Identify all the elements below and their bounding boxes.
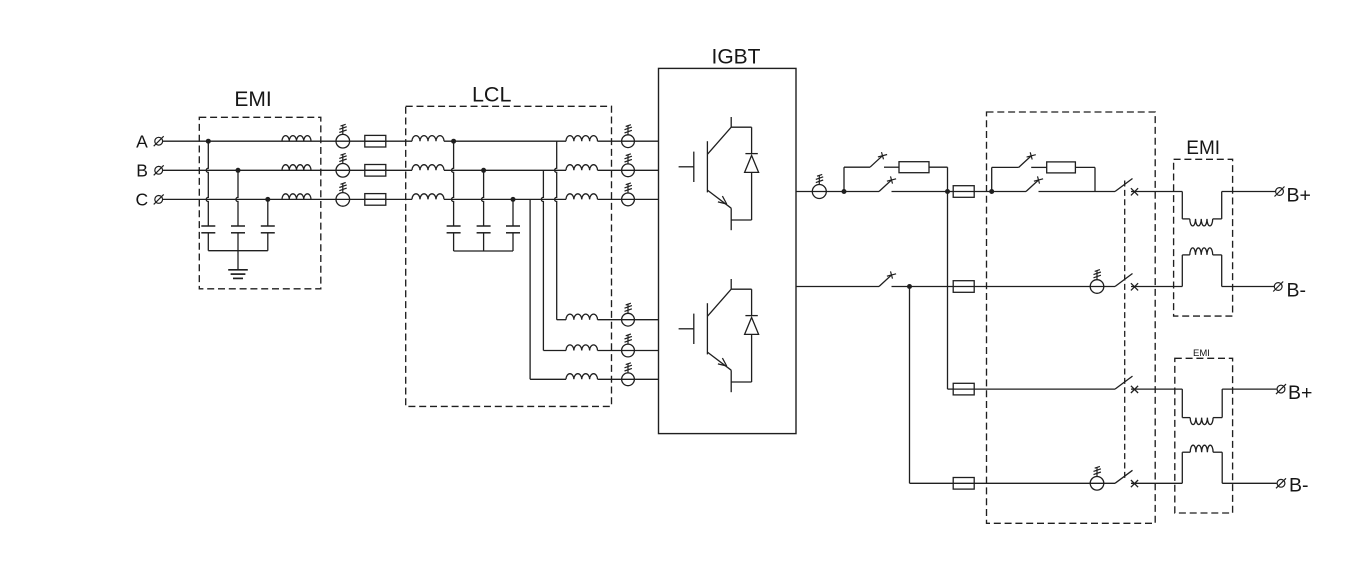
wire LCL capB to rail — [483, 233, 485, 251]
capacitor EMI-CC — [261, 225, 275, 227]
wire F4 to breaker — [974, 482, 1115, 484]
breaker QF3 (line3) — [1115, 376, 1133, 389]
wire precharge rejoin drop — [947, 167, 949, 191]
ground — [228, 269, 248, 271]
sensor LA — [622, 135, 635, 148]
node LCL A tap — [451, 139, 456, 144]
wire row1 stub — [557, 319, 566, 321]
node B-cap tap — [236, 168, 241, 173]
wire feed B to lower row2 — [541, 170, 543, 350]
wire precharge branch top — [844, 166, 870, 168]
wire QF1 out — [1131, 191, 1182, 193]
wire F3 to breaker — [974, 388, 1115, 390]
svg-text:B-: B- — [1287, 280, 1307, 302]
wire phase B (terminal to LCL) — [163, 169, 412, 171]
sensor LE — [622, 344, 635, 357]
svg-text:B+: B+ — [1288, 382, 1312, 404]
wire LCL capC drop — [512, 199, 514, 226]
wire battery precharge drop — [1094, 167, 1096, 191]
sensor LB — [622, 164, 635, 177]
DC switch box — [987, 112, 1156, 523]
sensor B1- line — [1090, 280, 1104, 294]
svg-text:EMI: EMI — [234, 88, 271, 111]
wire cap A to rail — [207, 233, 209, 251]
wire C to IGBT — [598, 198, 659, 200]
inductor EMI-B — [282, 165, 311, 171]
EMI output box 2 — [1175, 358, 1233, 513]
contactor K4 (battery precharge) — [1019, 156, 1031, 168]
winding B1- choke — [1190, 248, 1213, 255]
capacitor LCL-CC — [506, 225, 520, 227]
wire battery precharge top — [992, 166, 1019, 168]
wire B to IGBT — [598, 169, 659, 171]
fuse FC — [365, 198, 386, 200]
wire B1- down-step — [1221, 255, 1223, 287]
sensor TC — [336, 193, 350, 207]
wire B1+ down-step — [1181, 192, 1183, 219]
winding B1+ choke — [1190, 219, 1213, 226]
wire feed C to lower row3 — [529, 199, 531, 379]
wire DC+ to fuse — [948, 191, 954, 193]
wire C mid (LCL) — [444, 198, 566, 200]
sensor TB — [336, 164, 350, 178]
terminal B2- — [1277, 479, 1285, 487]
wire K3 to node — [892, 286, 910, 288]
wire B2- coil stub L — [1182, 451, 1190, 453]
sensor LC — [622, 193, 635, 206]
wire line3 to fuse — [948, 388, 954, 390]
wire DC+ from IGBT — [796, 191, 879, 193]
inductor LCL-in-A — [412, 136, 444, 142]
wire C cap drop — [267, 199, 269, 226]
wire LCL capB drop — [482, 170, 484, 226]
breaker QF2 (line2) — [1115, 274, 1133, 287]
wire cap B to rail — [237, 233, 239, 251]
wire B1- up-step — [1181, 255, 1183, 287]
wire F1 into switch box — [974, 191, 992, 193]
input terminal A — [155, 137, 163, 145]
contactor K5 (battery main) — [1026, 180, 1039, 192]
breaker linkage (dashed) — [1124, 181, 1126, 479]
wire DC- to fuse — [910, 286, 954, 288]
svg-text:B+: B+ — [1287, 184, 1311, 206]
wire B2- down-step — [1221, 452, 1223, 483]
wire QF3 out — [1131, 388, 1182, 390]
wire E to IGBT — [598, 350, 659, 352]
svg-text:C: C — [136, 190, 149, 210]
svg-text:EMI: EMI — [1186, 138, 1220, 159]
wire DC- from IGBT — [796, 286, 879, 288]
winding B2- choke — [1190, 445, 1213, 452]
wire B1+ coil stub R — [1213, 218, 1222, 220]
svg-text:EMI: EMI — [1193, 348, 1210, 359]
inductor LCL-in-C — [412, 194, 444, 200]
wire K2 to node — [892, 191, 948, 193]
node LCL C tap — [511, 197, 516, 202]
inductor LCL-out-C — [566, 194, 598, 200]
capacitor LCL-CA — [447, 225, 461, 227]
capacitor LCL-CB — [477, 225, 491, 227]
node battery precharge split — [989, 189, 994, 194]
resistor R1 (precharge) — [899, 162, 929, 173]
wire node to K5 — [992, 191, 1026, 193]
sensor LD — [622, 313, 635, 326]
wire phase C (terminal to LCL) — [163, 198, 412, 200]
wire A to IGBT — [598, 140, 659, 142]
contactor K3 (DC-) — [879, 275, 892, 287]
capacitor EMI-CB — [231, 225, 245, 227]
wire B2+ coil stub R — [1213, 417, 1222, 419]
svg-text:B: B — [136, 161, 148, 181]
LCL filter box — [406, 106, 612, 406]
contactor K1 (precharge) — [870, 156, 883, 168]
wire F2 to breaker — [974, 286, 1115, 288]
wire line4 to fuse — [910, 482, 954, 484]
wire B1+ coil stub L — [1182, 218, 1190, 220]
inductor LCL-out-E — [566, 345, 598, 351]
wire B2+ up-step — [1221, 389, 1223, 418]
wire B1- out — [1222, 286, 1274, 288]
inductor LCL-out-B — [566, 165, 598, 171]
sensor DC+ — [812, 185, 826, 199]
wire B1- coil stub L — [1182, 254, 1190, 256]
node C-cap tap — [265, 197, 270, 202]
resistor R2 (battery precharge) — [1047, 162, 1076, 173]
wire cap C to rail — [267, 233, 269, 251]
wire EMI star rail — [208, 250, 267, 252]
wire feed A to lower row1 — [555, 141, 557, 320]
wire B2- coil stub R — [1213, 451, 1222, 453]
svg-text:LCL: LCL — [472, 83, 511, 107]
wire B cap drop — [236, 170, 238, 226]
IGBT module Q1 (upper) — [730, 117, 732, 127]
inductor EMI-C — [282, 194, 311, 200]
inductor LCL-out-F — [566, 374, 598, 380]
wire DC- feed to line4 — [909, 287, 911, 484]
wire R1 to corner — [929, 166, 948, 168]
inductor LCL-out-A — [566, 136, 598, 142]
IGBT module Q2 (lower) — [730, 279, 732, 289]
wire B mid (LCL) — [444, 169, 566, 171]
wire battery precharge up — [991, 167, 993, 191]
wire B2- up-step — [1181, 452, 1183, 483]
wire A mid (LCL) — [444, 140, 566, 142]
terminal B2+ — [1277, 385, 1285, 393]
wire row2 stub — [543, 350, 566, 352]
wire precharge branch up — [843, 167, 845, 191]
node LCL B tap — [481, 168, 486, 173]
contactor K2 (main DC+) — [879, 180, 892, 192]
wire D to IGBT — [598, 319, 659, 321]
inductor LCL-out-D — [566, 314, 598, 320]
wire K5 to breaker — [1039, 191, 1116, 193]
node DC- junction — [907, 284, 912, 289]
wire A cap drop — [206, 141, 208, 226]
capacitor EMI-CA — [201, 225, 215, 227]
fuse F4 — [953, 482, 974, 484]
wire B2+ out — [1222, 388, 1276, 390]
inductor LCL-in-B — [412, 165, 444, 171]
wire rail to ground — [237, 251, 239, 270]
wire LCL capA drop — [452, 141, 454, 226]
fuse F1 (DC+) — [953, 191, 974, 193]
svg-text:B-: B- — [1289, 474, 1309, 496]
wire row3 stub — [530, 378, 566, 380]
EMI filter box (input) — [199, 117, 320, 288]
wire R2 to corner — [1075, 166, 1095, 168]
node A-cap tap — [206, 139, 211, 144]
fuse F3 — [953, 388, 974, 390]
fuse FA — [365, 140, 386, 142]
wire B1+ out — [1222, 191, 1276, 193]
breaker QF1 (line1) — [1115, 179, 1133, 192]
svg-text:IGBT: IGBT — [711, 46, 760, 69]
wire LCL capC to rail — [512, 233, 514, 251]
wire K4 to R2 — [1031, 166, 1047, 168]
wire B1+ up-step — [1221, 192, 1223, 219]
sensor TA — [336, 134, 350, 148]
wire phase A (terminal to LCL) — [163, 140, 412, 142]
wire K1 to R1 — [884, 166, 899, 168]
wire B2- out — [1222, 482, 1276, 484]
node DC+ junction — [945, 189, 950, 194]
winding B2+ choke — [1190, 418, 1213, 425]
sensor LF — [622, 373, 635, 386]
wire DC+ feed to line3 — [947, 192, 949, 390]
sensor B2- line — [1090, 477, 1104, 491]
fuse FB — [365, 169, 386, 171]
terminal B1+ — [1276, 188, 1284, 196]
wire QF2 out — [1131, 286, 1182, 288]
wire B2+ coil stub L — [1182, 417, 1190, 419]
wire LCL star rail — [454, 250, 513, 252]
wire QF4 out — [1131, 482, 1182, 484]
IGBT box — [659, 68, 797, 433]
breaker QF4 (line4) — [1115, 470, 1133, 483]
wire B2+ down-step — [1181, 389, 1183, 418]
wire B1- coil stub R — [1213, 254, 1222, 256]
inductor EMI-A — [282, 136, 311, 142]
fuse F2 (DC-) — [953, 286, 974, 288]
input terminal C — [155, 196, 163, 204]
wire F to IGBT — [598, 378, 659, 380]
svg-text:A: A — [136, 131, 148, 151]
node DC+ precharge split — [842, 189, 847, 194]
EMI output box 1 — [1174, 159, 1233, 316]
wire LCL capA to rail — [453, 233, 455, 251]
terminal B1- — [1274, 283, 1282, 291]
input terminal B — [155, 166, 163, 174]
